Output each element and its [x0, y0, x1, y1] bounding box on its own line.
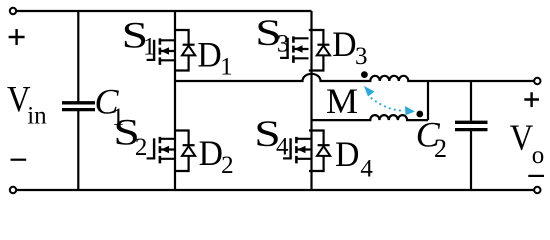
svg-text:3: 3	[355, 43, 368, 70]
svg-text:1: 1	[143, 34, 156, 61]
svg-text:D: D	[332, 24, 356, 64]
svg-text:in: in	[27, 103, 47, 130]
svg-text:D: D	[335, 134, 359, 174]
svg-text:o: o	[532, 142, 545, 169]
svg-text:4: 4	[276, 134, 289, 161]
svg-text:2: 2	[135, 134, 148, 161]
svg-text:1: 1	[220, 54, 233, 81]
svg-text:V: V	[510, 118, 534, 159]
svg-text:D: D	[197, 34, 221, 74]
svg-text:2: 2	[434, 134, 447, 163]
svg-text:D: D	[199, 133, 223, 173]
svg-text:2: 2	[221, 152, 234, 179]
svg-text:M: M	[326, 81, 358, 121]
svg-text:4: 4	[360, 156, 373, 183]
svg-text:3: 3	[277, 31, 290, 58]
svg-text:1: 1	[112, 104, 125, 131]
